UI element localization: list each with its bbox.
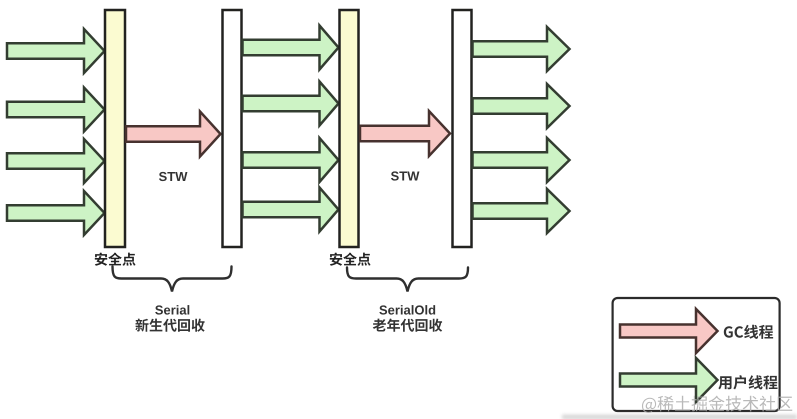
bottom watermark smudge — [562, 415, 797, 419]
label 新生代回收 — [135, 319, 204, 332]
user thread arrow B3 — [243, 138, 339, 182]
user thread arrow B4 — [243, 188, 339, 232]
user thread arrow C1 — [473, 27, 570, 71]
label safepoint 1 (安全点) — [95, 252, 136, 265]
user thread arrow A1 — [7, 29, 105, 73]
brace SerialOld group — [347, 268, 468, 292]
user thread arrow B2 — [243, 82, 339, 126]
watermark @稀土掘金技术社区 — [642, 396, 792, 413]
GC thread arrow STW 1 — [126, 112, 221, 157]
GC thread arrow STW 2 — [360, 111, 450, 156]
user thread arrow C2 — [473, 84, 570, 128]
GC bar 1 (white) — [223, 10, 242, 247]
label 老年代回收 — [373, 319, 442, 332]
label safepoint 2 (安全点) — [330, 252, 371, 265]
brace Serial group — [113, 267, 232, 292]
legend label 用户线程 — [718, 375, 777, 389]
user thread arrow B1 — [243, 26, 339, 70]
GC bar 2 (white) — [453, 10, 472, 247]
legend GC thread arrow (pink) — [620, 309, 718, 353]
user thread arrow C4 — [473, 189, 570, 233]
user thread arrow A4 — [7, 191, 105, 235]
user thread arrow A3 — [7, 139, 105, 183]
legend box — [613, 298, 780, 411]
user thread arrow A2 — [7, 88, 105, 132]
label STW 1 — [159, 172, 187, 181]
legend user thread arrow (green) — [620, 358, 718, 402]
user thread arrow C3 — [473, 138, 570, 182]
safepoint bar 2 (yellow) — [340, 10, 359, 247]
label SerialOld — [379, 305, 435, 315]
legend label GC线程 — [724, 325, 773, 339]
label Serial — [155, 305, 189, 315]
label STW 2 — [391, 171, 419, 180]
safepoint bar 1 (yellow) — [105, 10, 125, 247]
